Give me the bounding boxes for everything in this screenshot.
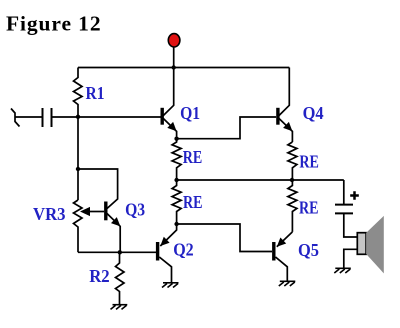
wire output cap drop xyxy=(343,180,345,205)
wire mid rail to output xyxy=(177,179,344,181)
resistor RE (upper right) xyxy=(288,142,297,180)
wire Q1 collector riser xyxy=(163,68,174,116)
transistor Q5 emitter arrow xyxy=(277,238,286,247)
svg-text:RE: RE xyxy=(299,198,319,218)
transistor Q2 emitter arrow xyxy=(160,237,169,246)
svg-text:Figure 12: Figure 12 xyxy=(6,12,102,36)
wire Q3 collector loop xyxy=(78,169,118,209)
node dot (VR3 top) xyxy=(76,167,80,171)
ground (under Q2) xyxy=(162,283,179,288)
ground (under R2) xyxy=(111,305,128,310)
VR3 wiper arrow xyxy=(80,207,90,216)
svg-text:Q2: Q2 xyxy=(173,240,194,260)
transistor Q4 emitter arrow xyxy=(283,122,292,131)
resistor R1 xyxy=(74,68,83,118)
resistor RE (upper left) xyxy=(172,139,181,180)
wire bottom left rail xyxy=(78,251,156,253)
svg-text:VR3: VR3 xyxy=(33,204,66,224)
wire node to Q5 base xyxy=(177,224,272,252)
svg-text:RE: RE xyxy=(183,192,203,212)
svg-text:Q5: Q5 xyxy=(298,240,319,260)
resistor RE (lower right) xyxy=(288,180,297,232)
plus sign xyxy=(350,191,359,200)
resistor RE (lower left) xyxy=(172,180,181,224)
wire Q1 emitter to Q4 base xyxy=(177,117,277,139)
transistor Q3 emitter arrow xyxy=(111,217,120,226)
node dot (supply rail) xyxy=(172,65,176,69)
capacitor C2 bottom plate xyxy=(335,212,353,214)
wire cap to speaker top xyxy=(344,213,358,237)
transistor Q1 emitter line xyxy=(163,118,176,138)
transistor Q5 emitter line xyxy=(277,232,293,247)
speaker driver xyxy=(357,233,366,255)
node dot (R1 base junction) xyxy=(76,115,80,119)
wire Q4 collector riser xyxy=(279,68,289,116)
transistor Q2 base bar xyxy=(156,242,159,261)
node dot (R2 top) xyxy=(118,250,122,254)
capacitor C1 right plate xyxy=(51,108,53,127)
input terminal xyxy=(11,109,20,127)
svg-text:Q3: Q3 xyxy=(125,200,145,220)
transistor Q2 emitter line xyxy=(160,224,176,246)
transistor Q3 base bar xyxy=(104,202,107,221)
wire capacitor to Q1 base xyxy=(52,116,161,118)
transistor Q4 emitter line xyxy=(279,118,293,142)
transistor Q1 base bar xyxy=(160,108,163,125)
node dot (Q2 emitter) xyxy=(174,222,178,226)
wire supply drop xyxy=(173,46,175,68)
ground (under speaker) xyxy=(334,268,351,273)
node dot (mid rail right) xyxy=(290,178,294,182)
svg-text:Q1: Q1 xyxy=(180,103,200,123)
resistor R2 xyxy=(116,252,125,304)
resistor VR3 xyxy=(74,200,83,252)
capacitor C1 left plate xyxy=(42,108,44,127)
transistor Q5 base bar xyxy=(272,242,275,261)
wire left branch down xyxy=(77,117,79,200)
wire speaker bottom to ground xyxy=(344,249,358,268)
wire input to capacitor xyxy=(15,116,42,118)
wire top rail xyxy=(78,67,289,69)
speaker cone xyxy=(366,216,384,274)
transistor Q3 emitter line xyxy=(107,214,120,253)
supply terminal (red) xyxy=(168,34,180,47)
wire VR3 wiper to Q3 base xyxy=(89,211,104,213)
svg-text:RE: RE xyxy=(183,147,203,167)
svg-text:R2: R2 xyxy=(89,266,110,286)
node dot (mid rail left) xyxy=(174,178,178,182)
transistor Q5 collector line xyxy=(276,257,288,281)
ground (under Q5) xyxy=(279,281,296,286)
transistor Q4 base bar xyxy=(276,108,279,125)
svg-text:RE: RE xyxy=(299,152,319,172)
svg-text:R1: R1 xyxy=(86,83,105,103)
transistor Q2 collector line xyxy=(159,257,171,283)
svg-text:Q4: Q4 xyxy=(303,103,324,123)
node dot (Q1 emitter) xyxy=(174,137,178,141)
capacitor C2 top plate xyxy=(335,204,353,206)
transistor Q1 emitter arrow xyxy=(167,122,176,131)
